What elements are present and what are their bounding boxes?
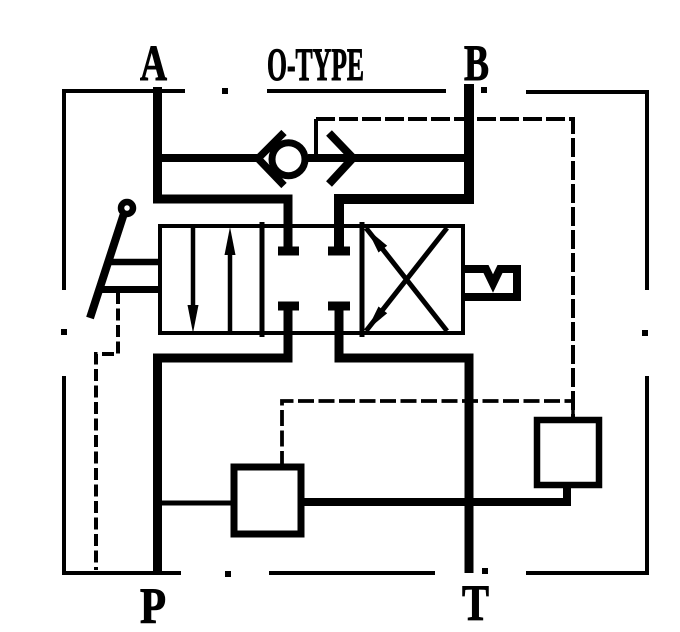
right position cross wire 2 — [366, 228, 447, 331]
box 1 (plug) — [234, 467, 301, 534]
enclosure border top-right corner — [526, 92, 647, 290]
enclosure border bottom-right corner — [526, 376, 647, 573]
port A line with feed to valve and blocked stub — [158, 87, 289, 252]
check valve seat — [258, 133, 284, 186]
enclosure border top-left corner — [64, 91, 185, 290]
enclosure border bottom dot 2 — [482, 568, 488, 574]
flow arrow on outlet — [329, 133, 353, 184]
left position down-flow wire — [191, 227, 196, 308]
svg-text:P: P — [140, 579, 166, 632]
valve divider 2 — [360, 222, 365, 337]
check valve outlet wire — [308, 154, 468, 162]
svg-text:T: T — [462, 576, 489, 632]
enclosure border top segment 2 — [267, 89, 446, 93]
port P stub and line — [158, 306, 289, 573]
left position up-flow wire — [228, 252, 233, 333]
detent symbol — [462, 269, 517, 297]
cross wire 2 arrowhead — [367, 307, 387, 331]
enclosure border right dot — [642, 330, 648, 336]
right position cross wire 1 — [366, 228, 447, 331]
box 2 top riser — [571, 401, 575, 420]
left position up arrowhead — [225, 227, 236, 255]
check valve ball (octagon) — [272, 143, 305, 176]
svg-text:A: A — [140, 36, 167, 92]
port A stub cap — [278, 247, 299, 256]
svg-text:O-TYPE: O-TYPE — [267, 39, 364, 91]
box 2 (plug) — [537, 420, 599, 485]
enclosure border top dot 1 — [222, 88, 228, 94]
enclosure border left dot — [61, 329, 67, 335]
valve divider 1 — [260, 222, 265, 337]
pilot tap riser — [314, 119, 318, 158]
lever upper link — [109, 259, 162, 266]
bottom wire P to box 1 — [158, 501, 235, 506]
port T stub and line — [339, 306, 469, 573]
enclosure border bottom dot 1 — [225, 571, 231, 577]
valve body outline — [160, 226, 463, 333]
left position down arrowhead — [188, 305, 199, 333]
svg-text:B: B — [464, 36, 489, 92]
port T stub cap — [328, 302, 350, 311]
thick wire box1 to box2 — [301, 483, 567, 502]
pilot line horizontal dashed — [316, 119, 573, 420]
port B stub cap — [328, 247, 350, 256]
check valve inlet wire — [158, 154, 263, 162]
box 1 pilot riser dashed — [282, 401, 573, 467]
port B line with feed to valve and blocked stub — [339, 84, 469, 252]
enclosure border top dot 2 — [481, 87, 487, 93]
enclosure border bottom-left corner — [64, 376, 181, 573]
lever knob — [121, 202, 133, 214]
lever shaft — [90, 215, 124, 318]
cross wire 1 arrowhead — [367, 229, 387, 253]
enclosure border bottom segment 2 — [269, 571, 435, 575]
port P stub cap — [278, 302, 299, 311]
lever lower link — [101, 286, 162, 293]
lever drain dashed wire — [96, 292, 118, 570]
